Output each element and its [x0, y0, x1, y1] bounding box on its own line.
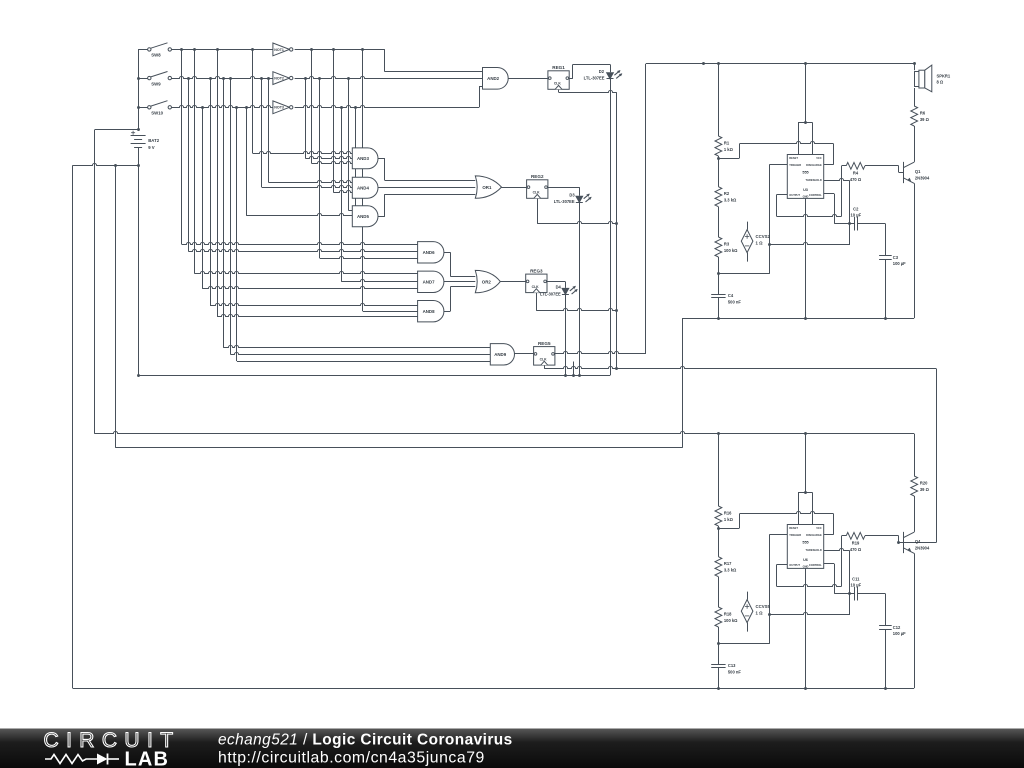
- svg-text:GND: GND: [803, 565, 809, 569]
- svg-text:SW10: SW10: [151, 111, 163, 116]
- svg-text:VCC: VCC: [816, 526, 822, 530]
- svg-text:D2: D2: [599, 69, 605, 74]
- svg-text:R1: R1: [724, 141, 730, 146]
- svg-text:Q4: Q4: [915, 539, 921, 544]
- svg-text:C12: C12: [893, 625, 901, 630]
- svg-text:U3: U3: [803, 188, 808, 192]
- svg-text:2N3904: 2N3904: [915, 175, 930, 180]
- svg-text:39 Ω: 39 Ω: [920, 487, 930, 492]
- svg-text:REG3: REG3: [530, 268, 543, 273]
- svg-text:CONTROL: CONTROL: [809, 563, 822, 567]
- svg-text:3.3 kΩ: 3.3 kΩ: [724, 198, 737, 203]
- svg-text:9 V: 9 V: [148, 145, 155, 150]
- svg-text:39 Ω: 39 Ω: [920, 117, 930, 122]
- svg-text:555: 555: [802, 541, 808, 545]
- svg-text:SPKR1: SPKR1: [937, 74, 951, 79]
- svg-text:500 nF: 500 nF: [728, 299, 741, 304]
- svg-text:AND9: AND9: [494, 352, 507, 357]
- svg-text:100 µF: 100 µF: [893, 631, 906, 636]
- svg-text:100 µF: 100 µF: [893, 261, 906, 266]
- svg-text:1 kΩ: 1 kΩ: [724, 147, 734, 152]
- svg-text:REG5: REG5: [538, 341, 551, 346]
- svg-text:C13: C13: [728, 663, 736, 668]
- svg-text:R3: R3: [724, 242, 730, 247]
- svg-text:NOT1: NOT1: [274, 48, 284, 52]
- svg-text:LAB: LAB: [125, 749, 170, 768]
- svg-text:Q1: Q1: [915, 169, 921, 174]
- svg-text:REG1: REG1: [552, 65, 565, 70]
- svg-text:AND4: AND4: [357, 185, 370, 190]
- svg-text:http://circuitlab.com/cn4a35ju: http://circuitlab.com/cn4a35junca79: [218, 750, 485, 767]
- svg-text:R2: R2: [724, 191, 730, 196]
- svg-text:BAT2: BAT2: [148, 138, 160, 143]
- svg-text:470 Ω: 470 Ω: [850, 547, 862, 552]
- svg-text:470 Ω: 470 Ω: [850, 177, 862, 182]
- svg-text:SW8: SW8: [151, 53, 161, 58]
- svg-text:VCC: VCC: [816, 156, 822, 160]
- svg-text:OR1: OR1: [482, 185, 492, 190]
- svg-text:D3: D3: [569, 193, 575, 198]
- svg-text:10 µF: 10 µF: [851, 212, 862, 217]
- svg-text:OUTPUT: OUTPUT: [789, 563, 800, 567]
- svg-text:TRIGGER: TRIGGER: [789, 163, 801, 167]
- svg-text:CCVS5: CCVS5: [756, 604, 771, 609]
- svg-text:3.3 kΩ: 3.3 kΩ: [724, 568, 737, 573]
- svg-text:TRIGGER: TRIGGER: [789, 533, 801, 537]
- svg-text:AND3: AND3: [357, 156, 370, 161]
- svg-text:THRESHOLD: THRESHOLD: [806, 548, 822, 552]
- svg-text:C4: C4: [728, 293, 734, 298]
- svg-text:8 Ω: 8 Ω: [937, 80, 944, 85]
- svg-text:R20: R20: [920, 481, 928, 486]
- svg-text:AND2: AND2: [487, 76, 500, 81]
- svg-text:AND5: AND5: [357, 214, 370, 219]
- svg-text:DISCHARGE: DISCHARGE: [806, 533, 822, 537]
- svg-text:CCVS2: CCVS2: [756, 234, 771, 239]
- svg-text:echang521 / Logic Circuit Coro: echang521 / Logic Circuit Coronavirus: [218, 732, 513, 749]
- svg-text:R17: R17: [724, 561, 732, 566]
- svg-text:GND: GND: [803, 195, 809, 199]
- svg-text:CLK: CLK: [540, 358, 548, 362]
- svg-text:REG2: REG2: [531, 174, 544, 179]
- svg-text:RESET: RESET: [789, 156, 798, 160]
- svg-text:R4: R4: [853, 171, 859, 176]
- svg-text:CLK: CLK: [533, 191, 541, 195]
- svg-text:AND6: AND6: [423, 250, 436, 255]
- svg-text:500 nF: 500 nF: [728, 669, 741, 674]
- svg-text:R19: R19: [852, 541, 860, 546]
- svg-text:C3: C3: [893, 255, 899, 260]
- svg-text:R18: R18: [724, 612, 732, 617]
- svg-text:LTL-307EE: LTL-307EE: [540, 291, 561, 296]
- svg-text:10 µF: 10 µF: [851, 582, 862, 587]
- svg-text:LTL-307EE: LTL-307EE: [554, 199, 575, 204]
- svg-text:THRESHOLD: THRESHOLD: [806, 178, 822, 182]
- svg-text:RESET: RESET: [789, 526, 798, 530]
- svg-text:SW9: SW9: [151, 81, 161, 86]
- svg-text:C2: C2: [853, 206, 859, 211]
- svg-text:1 kΩ: 1 kΩ: [724, 517, 734, 522]
- svg-text:OUTPUT: OUTPUT: [789, 193, 800, 197]
- svg-text:CLK: CLK: [554, 82, 562, 86]
- svg-text:D4: D4: [556, 285, 562, 290]
- svg-text:R6: R6: [920, 111, 926, 116]
- svg-text:AND8: AND8: [423, 309, 436, 314]
- svg-text:CONTROL: CONTROL: [809, 193, 822, 197]
- svg-text:NOT2: NOT2: [274, 77, 284, 81]
- svg-text:1 Ω: 1 Ω: [756, 241, 764, 246]
- svg-text:R16: R16: [724, 511, 732, 516]
- svg-text:C11: C11: [852, 576, 860, 581]
- svg-text:CLK: CLK: [532, 285, 540, 289]
- svg-text:NOT3: NOT3: [274, 106, 284, 110]
- svg-text:100 kΩ: 100 kΩ: [724, 618, 738, 623]
- svg-text:AND7: AND7: [423, 280, 436, 285]
- svg-text:LTL-307EE: LTL-307EE: [584, 76, 605, 81]
- svg-text:OR2: OR2: [482, 279, 492, 284]
- svg-text:555: 555: [802, 171, 808, 175]
- svg-text:U6: U6: [803, 558, 808, 562]
- svg-text:DISCHARGE: DISCHARGE: [806, 163, 822, 167]
- svg-text:100 kΩ: 100 kΩ: [724, 248, 738, 253]
- svg-text:2N3904: 2N3904: [915, 545, 930, 550]
- svg-text:1 Ω: 1 Ω: [756, 611, 764, 616]
